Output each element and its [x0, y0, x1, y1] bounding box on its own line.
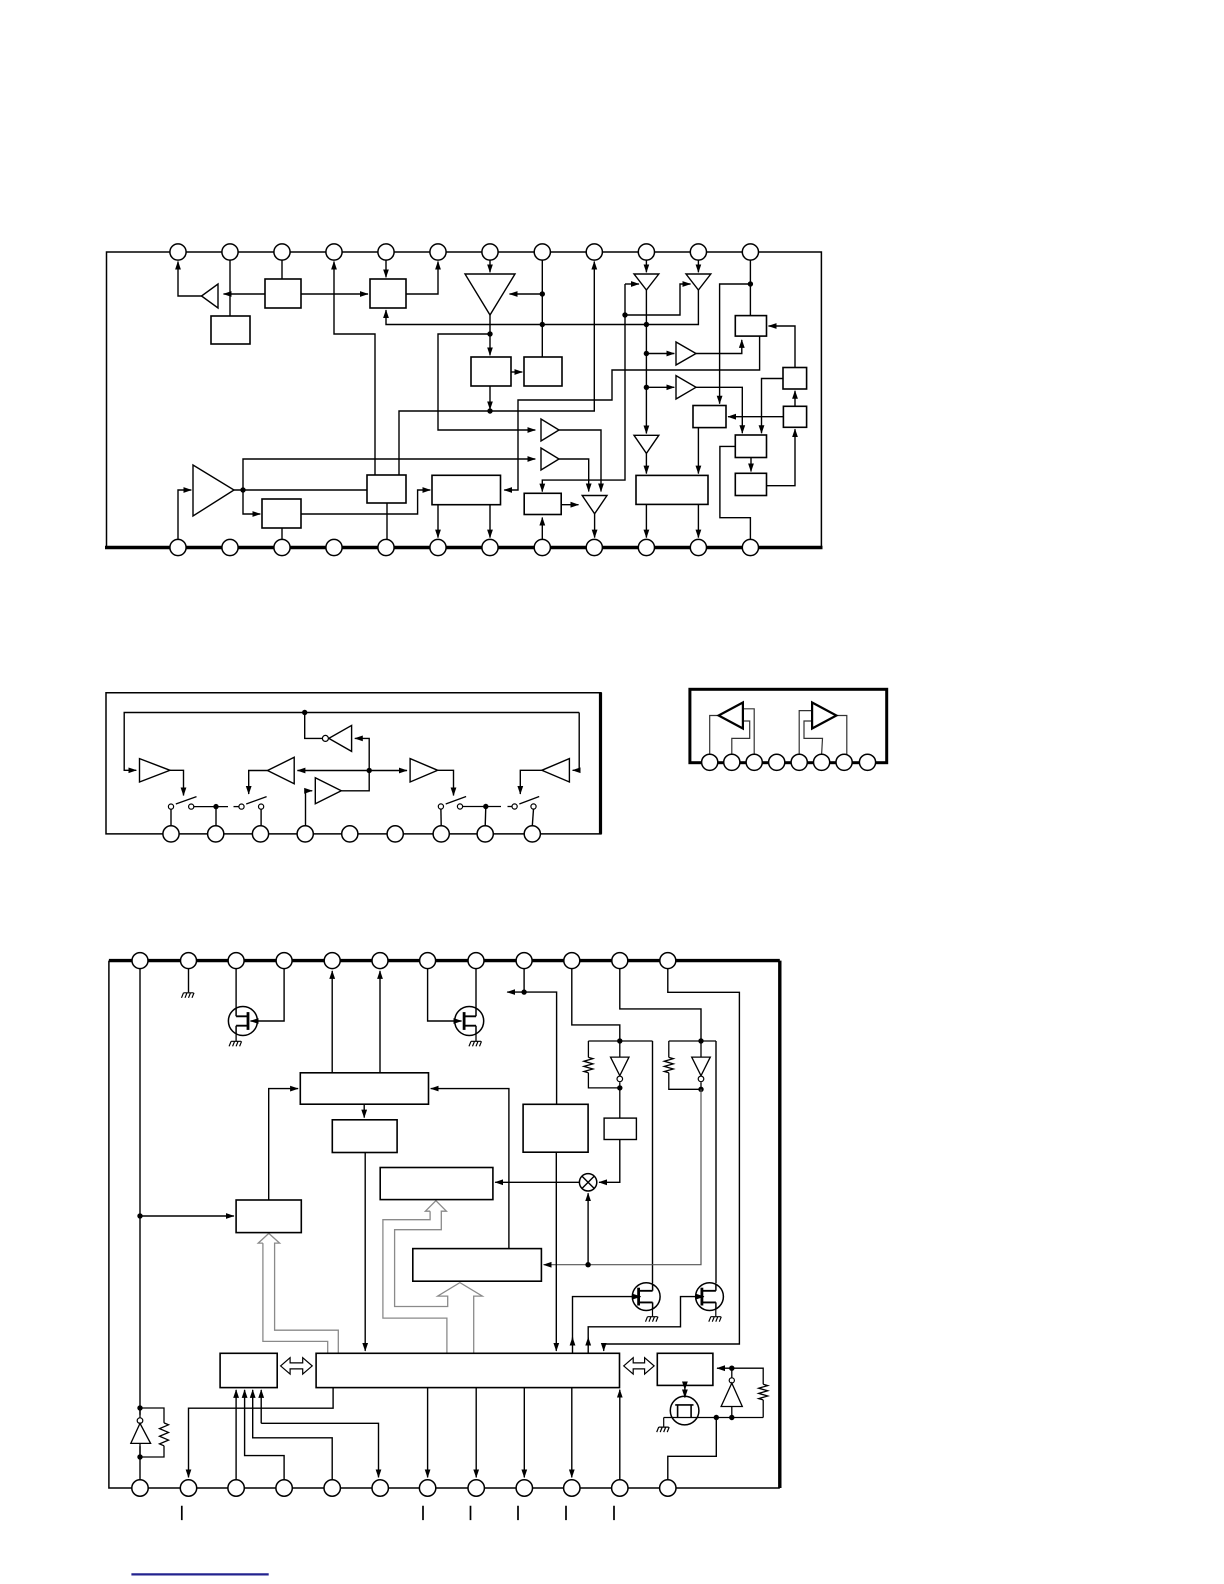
wire node to mixer X1 bottom	[587, 1193, 589, 1265]
transistor Q5	[670, 1396, 699, 1425]
node b8	[729, 1366, 734, 1371]
wire tri V5 output bus y=324 to box A3	[386, 290, 698, 325]
hollow arrow from box T to box U and box V	[383, 1201, 482, 1353]
wire pin 11 to cell K2	[620, 969, 701, 1041]
wire switch link left	[194, 806, 228, 808]
wire pin 24 to Q5 drain	[668, 1418, 717, 1480]
box E1	[735, 316, 766, 337]
wire box C2 to box C3	[301, 490, 430, 514]
pin top 10 of U1	[638, 244, 654, 260]
node j9	[622, 312, 627, 317]
pin 1 of U2	[163, 826, 179, 842]
wire pin 1 bus vertical	[139, 969, 141, 1415]
box B1	[471, 357, 511, 386]
pin top 12 of U4	[660, 953, 676, 969]
wire box S to box R1	[269, 1089, 298, 1200]
inverter V9 (left-pointing)	[329, 725, 352, 751]
box B2	[524, 357, 562, 386]
buffer V1 (left-pointing)	[202, 284, 219, 308]
box E2	[783, 368, 807, 390]
pin top 3 of U4	[228, 953, 244, 969]
box R2	[523, 1104, 588, 1152]
cell K4 feedback wiring	[732, 1368, 763, 1417]
pin top 9 of U4	[516, 953, 532, 969]
wire box E4 to pin 24	[720, 446, 751, 539]
node j4	[487, 408, 492, 413]
wire amp V3 output to box B1	[489, 315, 491, 355]
inverter V18 bubble	[137, 1418, 143, 1424]
pin top 12 of U1	[742, 244, 758, 260]
wire contact to pin 7	[440, 809, 442, 826]
ground Q3	[646, 1317, 659, 1322]
wire box R1b to box T	[364, 1153, 366, 1351]
wire node to pin 2	[215, 807, 217, 826]
pin bottom 19 of U4	[419, 1480, 435, 1496]
node b2	[585, 1262, 590, 1267]
box R1b	[332, 1120, 397, 1153]
mixer X1	[579, 1174, 596, 1191]
node j7	[644, 351, 649, 356]
IC U1 outline	[107, 252, 822, 548]
wire pin 6 to buf V15 input b	[804, 721, 823, 755]
amp V2	[193, 465, 234, 516]
box E3	[783, 406, 806, 427]
pin bottom 19 of U1	[482, 539, 498, 555]
pin bottom 21 of U1	[586, 539, 602, 555]
wire box A1 to buf1 input	[224, 293, 266, 295]
wire inverter V9 out to feedback node	[305, 713, 323, 739]
wire buf B2 to mixer	[559, 459, 589, 492]
wire tri V4 output vertical	[645, 290, 647, 434]
node j2	[540, 322, 545, 327]
node j10	[748, 281, 753, 286]
node b5	[137, 1454, 142, 1459]
wire box T to pin 14	[189, 1388, 334, 1478]
wire box Y to pin 16	[245, 1390, 285, 1480]
pin top 3 of U1	[274, 244, 290, 260]
pin bottom 13 of U1	[170, 539, 186, 555]
wire pin 3 to box A1	[281, 253, 283, 279]
wire box T to Q3 gate lower	[572, 1338, 574, 1354]
pin bottom 20 of U4	[468, 1480, 484, 1496]
tri V10 (left-pointing)	[268, 757, 295, 783]
wire box C2 to pin 15	[281, 528, 283, 539]
pin 5 of U2	[342, 826, 358, 842]
wire box B1 to box B2	[511, 371, 522, 373]
wire box E4 to box E5	[750, 458, 752, 472]
wire pin 3 to buf V14 input a	[743, 709, 754, 755]
wire pin 9 stub arrow	[507, 991, 524, 993]
pin top 2 of U4	[181, 953, 197, 969]
box C3	[432, 475, 501, 504]
wire cell K2 rail to Q4 drain	[715, 1041, 717, 1283]
transistor Q3	[632, 1283, 660, 1311]
wire switch link right	[463, 806, 501, 808]
wire box C3 to pin 19	[489, 505, 491, 538]
node k1b	[617, 1085, 622, 1090]
switch S3 arm	[446, 797, 466, 805]
pin bottom 23 of U1	[690, 539, 706, 555]
wire pin 12 to box E1	[749, 253, 751, 316]
wire box T to Q3 gate upper	[573, 1297, 633, 1341]
wire box A3 to pin 6	[406, 262, 438, 295]
pin bottom 13 of U4	[132, 1480, 148, 1496]
node j5	[240, 487, 245, 492]
node j3	[487, 331, 492, 336]
wire box E2 to box E1	[769, 326, 796, 368]
wire pin 23 to box T	[619, 1390, 621, 1480]
wire box E2 to box E4	[762, 379, 784, 434]
wire box X to Q5 gate inner	[684, 1391, 686, 1398]
pin 7 of U3	[836, 754, 852, 770]
box D2	[693, 406, 726, 428]
wire box Y to pin 15	[235, 1390, 237, 1480]
blue underline mark	[131, 1573, 268, 1575]
cell K2 rails	[669, 1041, 716, 1089]
box A1	[265, 279, 301, 308]
inverter V19 bubble	[729, 1378, 734, 1383]
wire buf1 output to pin 1	[178, 262, 202, 297]
cell K3 wiring	[140, 1408, 164, 1457]
node b3	[137, 1213, 142, 1218]
inverter V16 (down-pointing)	[611, 1057, 630, 1076]
pin top 10 of U4	[564, 953, 580, 969]
inverter V17 (down-pointing)	[692, 1057, 711, 1076]
box E5	[735, 473, 766, 495]
wire tri V13 out to node	[341, 771, 369, 791]
wire node to pin 8	[484, 807, 487, 826]
resistor R4	[160, 1423, 169, 1446]
buffer B4	[676, 376, 696, 399]
pin 4 of U2	[297, 826, 313, 842]
pin 8 of U3	[859, 754, 875, 770]
wire amp V2 to box C1	[234, 489, 367, 491]
wire amp V3 output to buf B1 input	[438, 334, 535, 430]
wire box E3 to box D2	[728, 416, 783, 418]
pin bottom 17 of U1	[378, 539, 394, 555]
wire feedback net to amp V11	[573, 713, 580, 771]
box Y	[220, 1353, 277, 1387]
wire box T to Q4 gate lower	[587, 1338, 589, 1354]
pin 3 of U3	[746, 754, 762, 770]
wire box D2 to box D1	[697, 428, 699, 474]
wire mixer tri to pin 21	[594, 514, 596, 538]
switch S1 contacts	[168, 804, 263, 809]
pin bottom 17 of U4	[324, 1480, 340, 1496]
tri V6 (down-pointing)	[634, 435, 659, 453]
wire pin 13 to amp V2	[178, 490, 191, 539]
pin top 7 of U1	[482, 244, 498, 260]
wire box R2 to box T	[555, 1152, 557, 1351]
wire node to tri V12 input	[369, 770, 407, 772]
wire Q5 drain line	[664, 1417, 764, 1419]
wire pin 10 to cell K1	[572, 969, 620, 1041]
wire box R1 to pin 5	[331, 971, 333, 1073]
wire Q1 source to ground	[235, 1034, 237, 1042]
wire node to box D2	[720, 284, 751, 404]
wire buf B4 to box E4	[696, 387, 742, 433]
box D1	[636, 475, 708, 504]
IC U1 bottom rail (bold)	[105, 546, 823, 549]
wire pin 4 to tri V13 input	[306, 791, 313, 826]
pin top 7 of U4	[420, 953, 436, 969]
wire Q4 source to ground	[715, 1309, 717, 1316]
node j1	[540, 291, 545, 296]
wire pin 7 to Q2 gate	[428, 969, 462, 1021]
pin 2 of U3	[724, 754, 740, 770]
node j8	[644, 385, 649, 390]
ground Q5	[657, 1427, 670, 1432]
wire net N1 distribution vertical	[542, 284, 625, 492]
node k2a	[698, 1038, 703, 1043]
wire box T to pin 22	[571, 1388, 573, 1478]
inverter V9 bubble	[322, 735, 328, 741]
pin bottom 22 of U1	[638, 539, 654, 555]
IC U4 top rail (bold)	[109, 959, 780, 962]
wire amp V2 to box C2	[243, 490, 260, 514]
amp V11 (left-pointing)	[542, 759, 570, 782]
wire pin 11 to tri V5	[697, 253, 699, 272]
wire pin 1 bus lower	[139, 1446, 141, 1480]
pin bottom 15 of U1	[274, 539, 290, 555]
pin 7 of U2	[433, 826, 449, 842]
wire box A1 to box A3	[301, 293, 368, 295]
wire box B1 output down	[489, 386, 491, 409]
amp V8	[140, 759, 171, 782]
wire pin 2 to ground	[188, 969, 190, 993]
wire Q1 gate to pin 4	[251, 969, 285, 1021]
wire amp V8 to switch S1	[170, 770, 184, 795]
wire box E5 to box E3	[767, 429, 796, 486]
wire box R1 to box R1b	[363, 1104, 365, 1117]
tick marks below U4	[182, 1506, 614, 1520]
pin top 11 of U1	[690, 244, 706, 260]
pin bottom 21 of U4	[516, 1480, 532, 1496]
pin bottom 15 of U4	[228, 1480, 244, 1496]
wire amp V11 to switch S4	[520, 770, 542, 794]
wire contact to pin 1	[170, 809, 172, 826]
switch S4 arm	[519, 797, 539, 805]
wire pin 5 to box A3	[385, 253, 387, 277]
wire feedback net to amp V8	[124, 713, 579, 771]
pin top 1 of U1	[170, 244, 186, 260]
tri V12	[410, 759, 438, 782]
node s1	[213, 804, 218, 809]
wire pin 8 vertical to box B2	[541, 253, 543, 357]
tri V4 (down-pointing)	[634, 274, 659, 290]
wire box C1 to pin 9	[399, 262, 594, 476]
wire box C3 to pin 18	[437, 505, 439, 538]
pin 4 of U3	[769, 754, 785, 770]
wire pin 8 to Q2 drain	[475, 969, 477, 1008]
double arrow box T to box X	[624, 1358, 654, 1374]
pin top 5 of U4	[324, 953, 340, 969]
wire contact to pin 3	[260, 809, 262, 826]
wire box T to pin 19	[427, 1388, 429, 1478]
wire pin 2 to box A2	[229, 253, 231, 316]
wire pin 1 node to box S	[140, 1215, 234, 1217]
IC U3 outline (bold)	[690, 689, 887, 762]
wire buf B1 to mixer	[559, 430, 601, 492]
switch S1 arm	[176, 797, 197, 804]
switch S3 contacts	[438, 804, 536, 809]
wire pin 10 to tri V4	[645, 253, 647, 272]
node b1	[521, 989, 526, 994]
pin bottom 23 of U4	[612, 1480, 628, 1496]
pin bottom 16 of U4	[276, 1480, 292, 1496]
pin bottom 24 of U4	[660, 1480, 676, 1496]
IC U4 outline	[109, 961, 780, 1488]
ground Q4	[709, 1317, 722, 1322]
node k2b	[698, 1087, 703, 1092]
wire box R3 to mixer X1	[599, 1140, 620, 1183]
IC U4 right edge (bold)	[778, 961, 781, 1488]
wire cell K1 rail to Q3 drain	[652, 1041, 654, 1284]
node f2	[367, 768, 372, 773]
box T (wide)	[316, 1353, 619, 1387]
pin top 8 of U4	[468, 953, 484, 969]
transistor Q2	[455, 1007, 484, 1036]
pin 3 of U2	[252, 826, 268, 842]
inverter V17 bubble	[698, 1076, 704, 1082]
box S	[236, 1200, 301, 1233]
wire box C1 to pin 17	[386, 503, 388, 539]
wire amp V2 out to buf B2 input	[243, 459, 535, 490]
wire box C1 to pin 4	[334, 262, 375, 476]
wire box Y to pin 18 upper	[260, 1390, 262, 1423]
amp V3 (down-pointing)	[465, 274, 515, 315]
wire node to amp V3 inverting input	[510, 293, 543, 295]
double arrow box Y to box T	[281, 1358, 313, 1374]
pin top 4 of U4	[276, 953, 292, 969]
wire box Y to pin 17	[253, 1390, 333, 1480]
pin bottom 14 of U1	[222, 539, 238, 555]
box R1 (wide)	[300, 1073, 428, 1104]
ground pin 2	[182, 993, 195, 998]
buffer B3	[676, 342, 696, 365]
wire buf V15 output to pin 7	[836, 716, 846, 755]
wire pin 1 to buf V14 output	[710, 716, 719, 755]
wire box D1 to pin 23	[697, 504, 699, 537]
wire pin 7 to amp V3	[489, 253, 491, 272]
box R3	[604, 1118, 636, 1139]
tri V5 (down-pointing)	[686, 274, 711, 290]
resistor R1	[584, 1057, 593, 1072]
wire box D1 to pin 22	[645, 504, 647, 537]
pin 2 of U2	[208, 826, 224, 842]
pin 8 of U2	[477, 826, 493, 842]
inverter V16 bubble	[617, 1076, 623, 1082]
switch S2 arm	[246, 797, 266, 804]
IC U2 outline	[106, 693, 601, 834]
cell K1 rails	[588, 1041, 652, 1118]
box A2	[211, 316, 250, 344]
wire box E1 to box C3	[504, 336, 759, 490]
node s2	[483, 804, 488, 809]
pin top 5 of U1	[378, 244, 394, 260]
wire box R1 to pin 6	[379, 971, 381, 1073]
wire cell K2 out to box V	[544, 1089, 701, 1264]
mixer tri V7 (down-pointing)	[582, 496, 607, 514]
node f1	[302, 710, 307, 715]
inverter V18 (up-pointing)	[131, 1423, 151, 1443]
node k1a	[617, 1038, 622, 1043]
wire pin 9 to box R2	[524, 969, 557, 1105]
wire box V to box R1	[431, 1089, 509, 1249]
pin bottom 20 of U1	[534, 539, 550, 555]
box A3	[370, 279, 406, 308]
box C2	[262, 499, 301, 528]
wire pin 12 to box T	[604, 969, 740, 1351]
wire Q2 source to ground	[475, 1034, 477, 1042]
wire buf B3 to box E1	[696, 340, 742, 354]
wire pin 20 to box C4	[541, 518, 543, 540]
pin top 9 of U1	[586, 244, 602, 260]
node b6	[714, 1415, 719, 1420]
wire pin 5 to buf V15 input a	[799, 711, 812, 755]
wire node to inverter V9 input	[355, 738, 369, 770]
wire switch link left gap	[234, 806, 239, 808]
ground Q2	[469, 1041, 482, 1046]
ground Q1	[229, 1041, 242, 1046]
wire contact to pin 9	[532, 809, 533, 826]
buffer V15 (right-pointing)	[812, 703, 836, 729]
wire Q3 source to ground	[652, 1309, 654, 1316]
wire mixer X1 to box U	[495, 1181, 579, 1183]
pin bottom 18 of U4	[372, 1480, 388, 1496]
inverter V19 (up-pointing)	[721, 1383, 742, 1406]
hollow arrow from box T to box S	[258, 1233, 338, 1352]
node b7	[729, 1415, 734, 1420]
pin 5 of U3	[791, 754, 807, 770]
pin top 4 of U1	[326, 244, 342, 260]
pin 6 of U3	[814, 754, 830, 770]
box U	[380, 1168, 493, 1200]
wire net N1 to tri V4	[625, 283, 639, 285]
node b4	[137, 1405, 142, 1410]
pin bottom 16 of U1	[326, 539, 342, 555]
wire box T to pin 20	[475, 1388, 477, 1478]
wire pin 3 to Q1 drain	[235, 969, 237, 1008]
pin bottom 18 of U1	[430, 539, 446, 555]
pin top 11 of U4	[612, 953, 628, 969]
pin top 2 of U1	[222, 244, 238, 260]
wire tri V12 to switch S3	[438, 770, 454, 795]
wire box Y to pin 18 lower	[261, 1423, 378, 1477]
pin 1 of U3	[702, 754, 718, 770]
wire net N1 to tri V5	[625, 284, 691, 315]
wire tri V10 to switch S2	[249, 771, 268, 795]
transistor Q1	[228, 1007, 257, 1036]
box X	[657, 1353, 713, 1385]
wire box T to pin 21	[523, 1388, 525, 1478]
wire box C4 to mixer tri	[561, 504, 578, 506]
wire Q5 source to ground	[663, 1418, 665, 1427]
box V	[413, 1249, 542, 1282]
wire node to tri V10 input	[297, 770, 369, 772]
box C4	[524, 493, 561, 514]
pin top 8 of U1	[534, 244, 550, 260]
pin bottom 22 of U4	[564, 1480, 580, 1496]
wire box X to Q5 gate	[684, 1385, 686, 1389]
pin bottom 14 of U4	[180, 1480, 196, 1496]
resistor R5	[759, 1384, 768, 1400]
pin bottom 24 of U1	[742, 539, 758, 555]
box C1	[367, 475, 406, 503]
buffer B1	[541, 419, 559, 441]
pin top 6 of U4	[372, 953, 388, 969]
pin top 1 of U4	[132, 953, 148, 969]
